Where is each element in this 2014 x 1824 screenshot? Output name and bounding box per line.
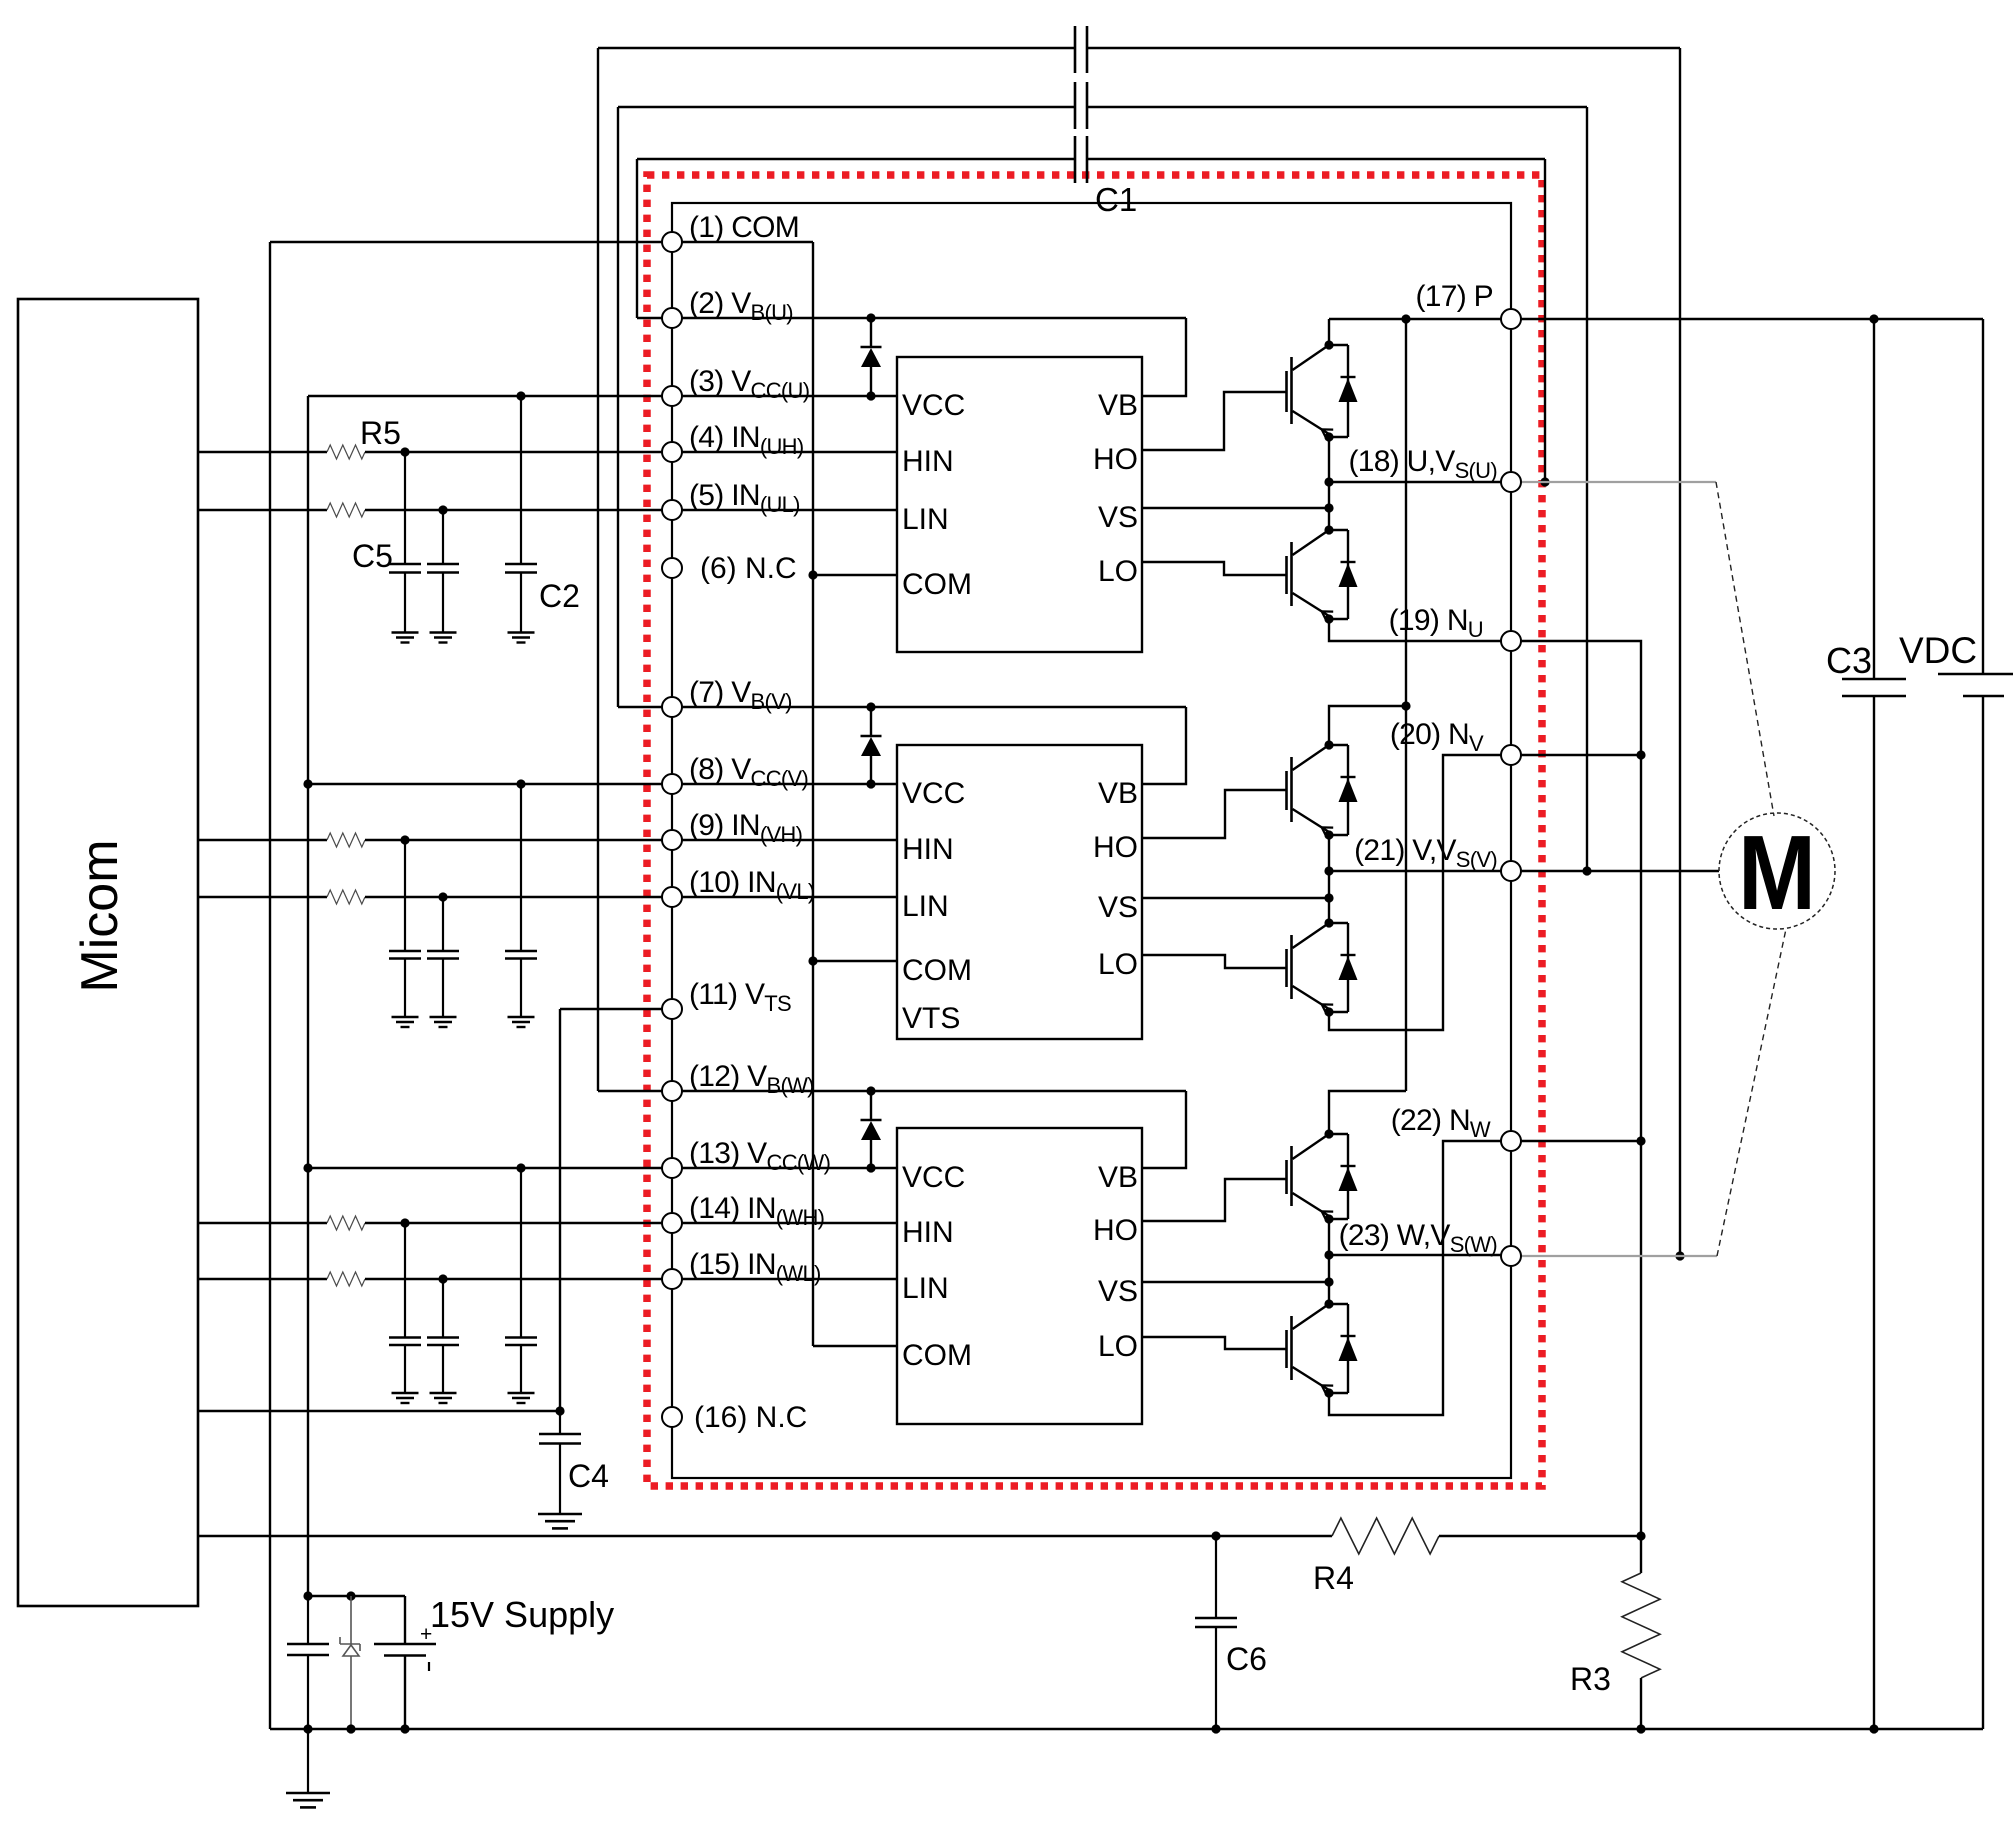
battery VDC bbox=[1938, 673, 2013, 676]
svg-text:LO: LO bbox=[1098, 948, 1138, 981]
pin 21 bbox=[1501, 861, 1521, 881]
wire C6 lower bbox=[1215, 1627, 1217, 1729]
junction C6 bottom bbox=[1211, 1724, 1220, 1733]
svg-text:(17) P: (17) P bbox=[1416, 280, 1494, 313]
wire Micom to resistor IN(VL) bbox=[198, 896, 327, 898]
pin 15 bbox=[662, 1269, 682, 1289]
gate driver U1 (U-phase HVIC) bbox=[897, 357, 1142, 652]
wire VB(V) row bbox=[682, 706, 1186, 708]
wire resistor to pin IN(UH) bbox=[365, 451, 897, 453]
junction VS W bbox=[1324, 1277, 1333, 1286]
wire COM to driver U bbox=[813, 574, 897, 576]
wire P bus bbox=[1329, 318, 1983, 320]
svg-text:(6) N.C: (6) N.C bbox=[700, 552, 797, 585]
wire HO U1 to Q1 gate bbox=[1142, 392, 1287, 450]
svg-text:VS: VS bbox=[1098, 501, 1138, 534]
transistor Q1 (U high IGBT + diode) bbox=[1290, 357, 1293, 424]
gate driver U2 (V-phase HVIC) bbox=[897, 745, 1142, 1039]
wire V bootstrap right riser bbox=[1586, 107, 1588, 871]
svg-text:COM: COM bbox=[902, 954, 972, 987]
resistor R3 bbox=[1622, 1573, 1660, 1678]
svg-text:VS: VS bbox=[1098, 1275, 1138, 1308]
svg-text:VCC: VCC bbox=[902, 389, 965, 422]
wire bottom ground rail bbox=[270, 1728, 1983, 1730]
svg-text:15V Supply: 15V Supply bbox=[430, 1594, 614, 1635]
junction C3 bottom bbox=[1869, 1724, 1878, 1733]
svg-text:(1) COM: (1) COM bbox=[689, 211, 799, 244]
pin 23 bbox=[1501, 1246, 1521, 1266]
wire VB(V) to driver VB bbox=[1142, 707, 1186, 784]
wire COM rail vertical bbox=[812, 242, 814, 1346]
wire P to VDC + bbox=[1982, 319, 1984, 674]
wire VB(U) to driver VB bbox=[1142, 318, 1186, 396]
junction U output bbox=[1324, 477, 1333, 486]
junction VCC rail V bbox=[303, 779, 312, 788]
junction U bootstrap tap bbox=[1540, 477, 1549, 486]
wire VS U3 bbox=[1142, 1281, 1329, 1283]
Micom block bbox=[18, 299, 198, 1606]
wire supply cap to rail bbox=[307, 1655, 309, 1729]
wire HO U2 to Q3 gate bbox=[1142, 790, 1287, 838]
junction filter cap IN(WH) bbox=[400, 1218, 409, 1227]
junction V output bbox=[1324, 866, 1333, 875]
capacitor C6 bbox=[1195, 1617, 1237, 1620]
svg-text:HIN: HIN bbox=[902, 833, 954, 866]
resistor input IN(VL) bbox=[327, 890, 365, 904]
diode bootstrap U (D1) bbox=[870, 318, 872, 347]
svg-text:C5: C5 bbox=[352, 538, 393, 574]
wire rail to system ground bbox=[307, 1729, 309, 1793]
svg-text:LO: LO bbox=[1098, 555, 1138, 588]
wire C6 upper bbox=[1215, 1536, 1217, 1618]
junction battery bottom bbox=[400, 1724, 409, 1733]
wire pin1 COM left bbox=[270, 241, 662, 243]
wire Micom to resistor IN(UL) bbox=[198, 509, 327, 511]
resistor R4 bbox=[1332, 1518, 1439, 1554]
gate driver U3 (W-phase HVIC) bbox=[897, 1128, 1142, 1424]
junction cap on VCC(W) bbox=[516, 1163, 525, 1172]
svg-text:LO: LO bbox=[1098, 1330, 1138, 1363]
resistor input IN(UH) bbox=[327, 445, 365, 459]
wire W phase to motor (gray) bbox=[1521, 1255, 1717, 1257]
wire U bootstrap top run right bbox=[1087, 158, 1545, 160]
transistor Q5 (W high IGBT + diode) bbox=[1290, 1146, 1293, 1206]
resistor input IN(WL) bbox=[327, 1272, 365, 1286]
wire C3 to ground rail bbox=[1873, 696, 1875, 1729]
wire VS U2 bbox=[1142, 897, 1329, 899]
pin 5 bbox=[662, 500, 682, 520]
capacitors C5/C2 (U phase filters) + grounds bbox=[404, 452, 406, 564]
wire 15V battery - to rail bbox=[404, 1656, 406, 1730]
junction W bootstrap tap bbox=[1675, 1251, 1684, 1260]
wire VCC(V) row bbox=[308, 783, 897, 785]
wire pin12 VB(W) to left riser bbox=[598, 1090, 662, 1092]
pin 3 bbox=[662, 386, 682, 406]
pin 11 bbox=[662, 999, 682, 1019]
wire Micom to resistor IN(WH) bbox=[198, 1222, 327, 1224]
wire W motor lead (dashed) bbox=[1717, 929, 1786, 1256]
wire supply + node bbox=[308, 1595, 405, 1597]
wire resistor to pin IN(WL) bbox=[365, 1278, 897, 1280]
wire NW to N rail bbox=[1521, 1140, 1641, 1142]
junction VTS/C4 bbox=[555, 1406, 564, 1415]
wire Q2 emitter to pin19 NU bbox=[1329, 619, 1511, 641]
svg-text:VTS: VTS bbox=[902, 1002, 960, 1035]
transistor Q2 (U low IGBT + diode) bbox=[1290, 542, 1293, 606]
svg-text:C6: C6 bbox=[1226, 1641, 1267, 1677]
wire U bootstrap top run bbox=[637, 158, 1075, 160]
wire W output node vertical bbox=[1328, 1219, 1330, 1304]
pin 18 bbox=[1501, 472, 1521, 492]
capacitors W-phase input filters + grounds bbox=[404, 1223, 406, 1338]
junction filter cap IN(WL) bbox=[438, 1274, 447, 1283]
junction supply cap bottom bbox=[303, 1724, 312, 1733]
svg-text:HIN: HIN bbox=[902, 1216, 954, 1249]
svg-text:(16) N.C: (16) N.C bbox=[694, 1401, 807, 1434]
junction C2 on VCC(U) bbox=[516, 391, 525, 400]
svg-text:COM: COM bbox=[902, 568, 972, 601]
wire LO U1 to Q2 gate bbox=[1142, 562, 1287, 575]
svg-text:LIN: LIN bbox=[902, 1272, 949, 1305]
wire Q4 emitter return to pin20 NV bbox=[1329, 755, 1501, 1030]
junction cap on VCC(V) bbox=[516, 779, 525, 788]
svg-text:R4: R4 bbox=[1313, 1560, 1354, 1596]
junction VCC rail W bbox=[303, 1163, 312, 1172]
wire COM left riser to bottom rail bbox=[269, 242, 271, 1729]
wire LO U3 to Q6 gate bbox=[1142, 1337, 1287, 1349]
wire W bootstrap right riser bbox=[1679, 48, 1681, 1256]
wire Micom to resistor IN(WL) bbox=[198, 1278, 327, 1280]
svg-text:R3: R3 bbox=[1570, 1661, 1611, 1697]
svg-text:LIN: LIN bbox=[902, 890, 949, 923]
diode bootstrap V (D2) bbox=[870, 707, 872, 736]
junction COM-U bbox=[808, 570, 817, 579]
wire COM to driver V bbox=[813, 960, 897, 962]
wire R3 to ground rail bbox=[1640, 1678, 1642, 1729]
wire resistor to pin IN(VH) bbox=[365, 839, 897, 841]
pin 17 bbox=[1501, 309, 1521, 329]
wire VDC - to ground rail bbox=[1982, 696, 1984, 1729]
svg-text:HO: HO bbox=[1093, 831, 1138, 864]
wire resistor to pin IN(UL) bbox=[365, 509, 897, 511]
junction R3 bottom bbox=[1636, 1724, 1645, 1733]
resistor input IN(VH) bbox=[327, 833, 365, 847]
zener diode supply bbox=[350, 1596, 352, 1644]
wire to C4 bbox=[559, 1411, 561, 1434]
transistor Q6 (W low IGBT + diode) bbox=[1290, 1316, 1293, 1380]
transistor Q4 (V low IGBT + diode) bbox=[1290, 935, 1293, 999]
wire U output node vertical bbox=[1328, 437, 1330, 530]
junction W output bbox=[1324, 1250, 1333, 1259]
IPM inner outline bbox=[672, 203, 1511, 1478]
pin 10 bbox=[662, 887, 682, 907]
wire VB(W) to driver VB bbox=[1142, 1091, 1186, 1168]
wire pin7 VB(V) to left riser bbox=[618, 706, 662, 708]
wire COM to driver W bbox=[813, 1345, 897, 1347]
wire W output to pin23 bbox=[1329, 1254, 1511, 1256]
pin 19 bbox=[1501, 631, 1521, 651]
junction VS U bbox=[1324, 503, 1333, 512]
wire VTS riser down bbox=[559, 1009, 561, 1411]
junction zener bottom bbox=[346, 1724, 355, 1733]
wire pin11 VTS left segment bbox=[560, 1008, 662, 1010]
wire HO U3 to Q5 gate bbox=[1142, 1179, 1287, 1221]
svg-text:HO: HO bbox=[1093, 1214, 1138, 1247]
motor M bbox=[1719, 813, 1835, 929]
svg-text:C1: C1 bbox=[1095, 181, 1137, 218]
capacitors V-phase input filters + grounds bbox=[404, 840, 406, 951]
wire Micom to resistor IN(UH) bbox=[198, 451, 327, 453]
svg-text:C2: C2 bbox=[539, 578, 580, 614]
wire NU to N sense rail bbox=[1521, 641, 1641, 1536]
junction filter cap IN(VH) bbox=[400, 835, 409, 844]
wire to 15V battery + bbox=[404, 1596, 406, 1644]
wire VB(W) row bbox=[682, 1090, 1186, 1092]
pin 7 bbox=[662, 697, 682, 717]
wire VCC rail vertical bbox=[307, 396, 309, 1596]
svg-text:VS: VS bbox=[1098, 891, 1138, 924]
pin 12 bbox=[662, 1081, 682, 1101]
capacitor C1 (x3 bootstrap) bbox=[1074, 26, 1077, 73]
svg-text:VB: VB bbox=[1098, 1161, 1138, 1194]
wire to supply cap bbox=[307, 1596, 309, 1644]
ground C4 bbox=[538, 1513, 582, 1516]
wire VCC(U) row bbox=[308, 395, 897, 397]
junction V bootstrap tap bbox=[1582, 866, 1591, 875]
wire Micom VTS output bbox=[198, 1410, 560, 1412]
junction filter cap IN(UH) bbox=[400, 447, 409, 456]
transistor Q3 (V high IGBT + diode) bbox=[1290, 757, 1293, 822]
wire W bootstrap left riser bbox=[597, 48, 599, 1091]
junction supply cap bbox=[303, 1591, 312, 1600]
pin 1 bbox=[662, 232, 682, 252]
svg-text:VB: VB bbox=[1098, 389, 1138, 422]
junction P rail V branch bbox=[1401, 701, 1410, 710]
svg-text:M: M bbox=[1738, 814, 1816, 932]
wire V bootstrap top run right bbox=[1087, 106, 1587, 108]
wire U phase to motor (gray) bbox=[1521, 481, 1716, 483]
junction VS V bbox=[1324, 893, 1333, 902]
junction zener top bbox=[346, 1591, 355, 1600]
wire V bootstrap left riser bbox=[617, 107, 619, 707]
wire resistor to pin IN(VL) bbox=[365, 896, 897, 898]
pin 22 bbox=[1501, 1131, 1521, 1151]
junction filter cap IN(UL) bbox=[438, 505, 447, 514]
wire U output to pin18 bbox=[1329, 481, 1511, 483]
wire VCC(W) row bbox=[308, 1167, 897, 1169]
wire P rail to Q3 collector bbox=[1329, 706, 1406, 745]
wire NV to N rail bbox=[1521, 754, 1641, 756]
capacitor C4 bbox=[539, 1433, 581, 1436]
wire V output to pin21 bbox=[1329, 870, 1511, 872]
junction COM-V bbox=[808, 956, 817, 965]
ground system bbox=[286, 1792, 330, 1795]
svg-text:HIN: HIN bbox=[902, 445, 954, 478]
wire Q6 emitter return to pin22 NW bbox=[1329, 1141, 1501, 1415]
wire W bootstrap top run bbox=[598, 47, 1075, 49]
wire U bootstrap left riser bbox=[636, 159, 638, 318]
wire U bootstrap right riser bbox=[1544, 159, 1546, 482]
capacitor supply filter bbox=[287, 1643, 329, 1646]
junction R4/R3/N bbox=[1636, 1531, 1645, 1540]
wire V bootstrap top run bbox=[618, 106, 1075, 108]
wire W bootstrap top run right bbox=[1087, 47, 1680, 49]
pin 16 bbox=[662, 1407, 682, 1427]
svg-text:COM: COM bbox=[902, 1339, 972, 1372]
wire sense rail from Micom bbox=[198, 1535, 1332, 1537]
pin 8 bbox=[662, 774, 682, 794]
wire V output node vertical bbox=[1328, 835, 1330, 923]
svg-text:Micom: Micom bbox=[71, 839, 129, 992]
wire P rail vertical bbox=[1405, 319, 1407, 1091]
diode bootstrap W (D3) bbox=[870, 1091, 872, 1120]
svg-text:VCC: VCC bbox=[902, 1161, 965, 1194]
junction P rail bbox=[1401, 314, 1410, 323]
resistor input IN(WH) bbox=[327, 1216, 365, 1230]
resistor input IN(UL) bbox=[327, 503, 365, 517]
pin 9 bbox=[662, 830, 682, 850]
pin 4 bbox=[662, 442, 682, 462]
svg-text:C4: C4 bbox=[568, 1458, 609, 1494]
capacitor C3 bbox=[1842, 678, 1906, 681]
wire pin1 COM right bbox=[682, 241, 813, 243]
pin 6 bbox=[662, 558, 682, 578]
wire P to C3 bbox=[1873, 319, 1875, 679]
IPM module boundary (red dotted) bbox=[647, 175, 1542, 1486]
pin 13 bbox=[662, 1158, 682, 1178]
svg-text:LIN: LIN bbox=[902, 503, 949, 536]
svg-text:VCC: VCC bbox=[902, 777, 965, 810]
wire LO U2 to Q4 gate bbox=[1142, 955, 1287, 968]
junction N rail NW bbox=[1636, 1136, 1645, 1145]
svg-text:VDC: VDC bbox=[1899, 630, 1977, 671]
wire P rail to Q5 collector bbox=[1329, 1091, 1406, 1134]
wire C4 to ground bbox=[559, 1444, 561, 1515]
svg-text:VB: VB bbox=[1098, 777, 1138, 810]
wire VS U1 bbox=[1142, 507, 1329, 509]
wire V phase to motor bbox=[1521, 870, 1719, 872]
svg-text:HO: HO bbox=[1093, 443, 1138, 476]
wire R4 to R3 node bbox=[1439, 1535, 1641, 1537]
wire pin2 VB(U) to left riser bbox=[637, 317, 662, 319]
svg-text:R5: R5 bbox=[360, 415, 401, 451]
wire resistor to pin IN(WH) bbox=[365, 1222, 897, 1224]
pin 14 bbox=[662, 1213, 682, 1233]
wire Micom to resistor IN(VH) bbox=[198, 839, 327, 841]
wire U motor lead (dashed) bbox=[1716, 482, 1774, 816]
junction C3 top bbox=[1869, 314, 1878, 323]
svg-text:C3: C3 bbox=[1826, 640, 1872, 681]
pin 2 bbox=[662, 308, 682, 328]
wire P to Q1 collector bbox=[1328, 319, 1330, 345]
pin 20 bbox=[1501, 745, 1521, 765]
wire VB(U) row bbox=[682, 317, 1186, 319]
junction filter cap IN(VL) bbox=[438, 892, 447, 901]
junction C6 top bbox=[1211, 1531, 1220, 1540]
wire to R3 bbox=[1640, 1536, 1642, 1573]
junction N rail NV bbox=[1636, 750, 1645, 759]
